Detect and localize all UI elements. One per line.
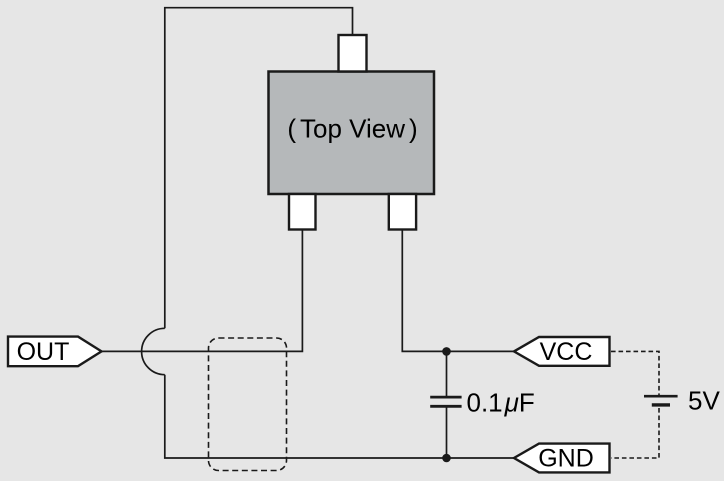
OUT terminal label: [8, 337, 102, 367]
dashed wire: battery negative to GND: [611, 408, 659, 458]
sensor package body (Top View): [269, 72, 435, 195]
junction dot at GND node: [442, 454, 451, 463]
battery BT1 positive plate (long): [644, 395, 678, 398]
svg-text:OUT: OUT: [17, 338, 70, 366]
wire hop (crossover arc) on left vertical wire: [142, 328, 165, 374]
top tab pin: [339, 35, 367, 72]
wire: bottom-right pin to VCC: [402, 228, 514, 351]
svg-text:0.1μF: 0.1μF: [467, 388, 535, 418]
dashed shield/cable outline box: [209, 338, 287, 471]
wire: top pin to top-left loop down to hop: [165, 8, 353, 329]
wire: left vertical below hop, to GND rail: [165, 375, 514, 458]
svg-text:GND: GND: [538, 445, 594, 473]
junction dot at VCC node: [442, 347, 451, 356]
VCC terminal label: [514, 337, 610, 366]
bottom-right pin: [389, 194, 416, 230]
bottom-left pin: [289, 194, 316, 230]
dashed wire: VCC to battery positive: [611, 351, 659, 395]
wire: junction to capacitor top plate: [446, 351, 448, 396]
wire: capacitor bottom plate to GND rail: [446, 407, 448, 458]
svg-text:(Top View): (Top View): [287, 114, 417, 144]
svg-text:VCC: VCC: [540, 338, 593, 366]
wire: OUT to bottom-left pin: [102, 228, 303, 351]
capacitor C (0.1uF) plates: [430, 396, 461, 399]
svg-text:5V: 5V: [688, 386, 720, 416]
battery BT1 negative plate (short thick): [652, 403, 670, 406]
GND terminal label: [514, 444, 610, 473]
